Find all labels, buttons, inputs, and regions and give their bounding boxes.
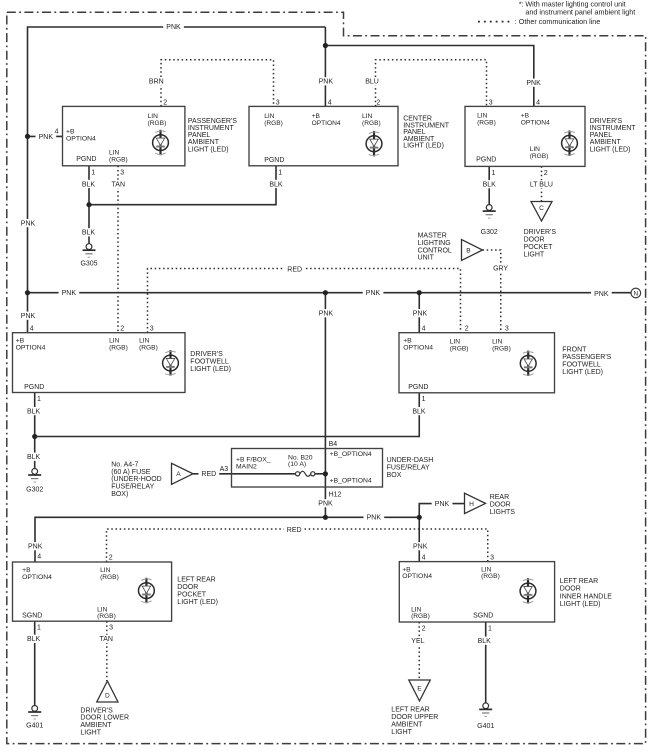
- svg-text:FOOTWELL: FOOTWELL: [562, 362, 601, 369]
- svg-text:A: A: [176, 471, 181, 478]
- LED lamp in U6: [139, 578, 155, 603]
- svg-text:PASSENGER'S: PASSENGER'S: [562, 354, 611, 361]
- svg-text:AMBIENT: AMBIENT: [80, 722, 112, 729]
- wire label BRN: [146, 77, 167, 85]
- U5 terminal label LIN (RGB) pin3: [492, 339, 511, 353]
- svg-text:RED: RED: [287, 527, 302, 534]
- svg-text:DRIVER'S: DRIVER'S: [590, 118, 623, 125]
- svg-text:(10 A): (10 A): [288, 461, 306, 468]
- svg-text:LIGHT (LED): LIGHT (LED): [177, 599, 218, 606]
- junction: lower bus at fuse box drop: [323, 515, 328, 520]
- connector box U2: center instrument panel ambient light (LED): [249, 106, 398, 165]
- pin 2 of U6: [109, 554, 113, 561]
- svg-text:TAN: TAN: [99, 636, 112, 643]
- pin 3 of U4: [150, 326, 154, 333]
- svg-text:1: 1: [422, 396, 426, 403]
- name label U7: left rear door inner handle light: [560, 578, 612, 608]
- svg-text:D: D: [105, 692, 110, 699]
- svg-text:(RGB): (RGB): [109, 156, 128, 163]
- svg-text:(RGB): (RGB): [411, 613, 430, 620]
- svg-text:OPTION4: OPTION4: [402, 573, 432, 580]
- svg-text:OPTION4: OPTION4: [22, 574, 52, 581]
- pin 2 of U7: [422, 625, 426, 632]
- junction: top rail to center light drop: [323, 43, 328, 48]
- svg-text:PNK: PNK: [413, 311, 428, 318]
- svg-text:REAR: REAR: [490, 494, 509, 501]
- name label: driver's door lower ambient light: [80, 707, 129, 736]
- pin 3 of U2: [276, 99, 280, 106]
- svg-text:AMBIENT: AMBIENT: [590, 139, 622, 146]
- svg-text:4: 4: [328, 99, 332, 106]
- svg-text:2: 2: [120, 326, 124, 333]
- legend sample: other communication line (dotted): [478, 17, 600, 26]
- wire PNK: stub to passenger's instrument panel light pin 4: [28, 135, 63, 137]
- connector box U5: front passenger's footwell light (LED): [399, 333, 555, 393]
- svg-text:PNK: PNK: [21, 313, 36, 320]
- dotted wire RED: driver's footwell pin 3 to front passenger's footwell pin 2: [148, 269, 461, 333]
- fuse box terminal label +B F/BOX_MAIN2: [236, 457, 271, 471]
- svg-text:LIGHT (LED): LIGHT (LED): [560, 601, 601, 608]
- ground G302 (footwell): [26, 469, 43, 494]
- svg-text:3: 3: [120, 170, 124, 177]
- dotted wire YEL: inner handle pin 2 to connector E: [418, 622, 420, 680]
- wire label RED (lower dotted): [284, 526, 305, 534]
- svg-text:LIGHT (LED): LIGHT (LED): [190, 366, 231, 373]
- wire PNK: upper rail to driver's instrument panel light pin 4: [325, 46, 533, 107]
- svg-text:FUSE/RELAY: FUSE/RELAY: [111, 484, 154, 491]
- svg-text:PASSENGER'S: PASSENGER'S: [188, 118, 237, 125]
- svg-text:2: 2: [465, 325, 469, 332]
- svg-text:(RGB): (RGB): [530, 153, 549, 160]
- svg-text:PNK: PNK: [62, 290, 77, 297]
- svg-text:3: 3: [109, 625, 113, 632]
- svg-text:LEFT REAR: LEFT REAR: [391, 706, 429, 713]
- svg-text:LEFT REAR: LEFT REAR: [560, 578, 598, 585]
- svg-text:INSTRUMENT: INSTRUMENT: [590, 125, 637, 132]
- U6 terminal label +B OPTION4: [22, 567, 52, 581]
- svg-text:4: 4: [55, 128, 59, 135]
- ground G401 (left): [26, 706, 43, 730]
- svg-text:N: N: [633, 291, 638, 298]
- svg-text:OPTION4: OPTION4: [312, 120, 341, 127]
- svg-text:LIGHT: LIGHT: [391, 729, 412, 736]
- svg-text:BLK: BLK: [412, 408, 426, 415]
- name label: under-dash fuse/relay box: [387, 457, 434, 479]
- pin 4 of U2: [328, 99, 332, 106]
- wire label TAN (pocket pin3): [96, 635, 117, 643]
- wire label BLK (driver footwell pin1): [23, 407, 44, 415]
- pin 2 of U4: [120, 326, 124, 333]
- svg-text:PNK: PNK: [594, 291, 609, 298]
- svg-text:2: 2: [544, 170, 548, 177]
- U1 terminal label +B OPTION4: [66, 129, 96, 143]
- name label: master lighting control unit: [418, 233, 452, 262]
- U7 terminal label +B OPTION4: [402, 566, 432, 580]
- svg-text:(RGB): (RGB): [362, 120, 381, 127]
- wire label PNK (top rail): [163, 23, 184, 31]
- svg-text:C: C: [539, 205, 544, 212]
- svg-text:(RGB): (RGB): [100, 574, 119, 581]
- svg-text:PNK: PNK: [435, 501, 450, 508]
- wire PNK: drop from middle bus to under-dash fuse box pin B4 and on to H12 / lower bus: [324, 293, 326, 518]
- svg-text:(RGB): (RGB): [481, 573, 500, 580]
- U2 terminal label LIN (RGB) pin2: [362, 113, 381, 127]
- U7 terminal label LIN (RGB) pin2: [411, 606, 430, 620]
- svg-text:DRIVER'S: DRIVER'S: [80, 707, 113, 714]
- junction: left vertical to middle PNK bus: [25, 290, 30, 295]
- svg-text:LIGHT (LED): LIGHT (LED): [403, 143, 444, 150]
- svg-text:A3: A3: [220, 466, 229, 473]
- wire BLK: left rear door pocket light pin 1 to ground G401: [34, 621, 36, 705]
- LED lamp in U7: [520, 578, 536, 603]
- name label U6: left rear door pocket light: [177, 576, 218, 606]
- svg-text:PNK: PNK: [413, 544, 428, 551]
- svg-text:BLK: BLK: [82, 181, 96, 188]
- svg-text:(RGB): (RGB): [477, 119, 496, 126]
- wire BLK: left rear door inner handle light pin 1 to ground G401: [485, 622, 487, 703]
- wire PNK: branch to rear door lights connector H and left rear door inner handle light pin 4: [419, 504, 464, 562]
- svg-text:PNK: PNK: [366, 290, 381, 297]
- pin 3 of U1: [120, 170, 124, 177]
- name label: rear door lights: [490, 494, 516, 516]
- svg-text:2: 2: [109, 554, 113, 561]
- svg-text:POCKET: POCKET: [177, 592, 207, 599]
- svg-text:TAN: TAN: [112, 181, 125, 188]
- LED lamp in U5: [520, 351, 536, 376]
- U5 terminal label LIN (RGB) pin2: [450, 339, 469, 353]
- svg-text:PNK: PNK: [21, 220, 36, 227]
- svg-text:BLU: BLU: [365, 78, 379, 85]
- svg-text:1: 1: [278, 170, 282, 177]
- wire label BLK (to G302): [23, 453, 44, 461]
- svg-text:MASTER: MASTER: [418, 233, 447, 240]
- U5 terminal label PGND: [408, 384, 428, 391]
- wire label BLU: [362, 77, 383, 85]
- wire label PNK (left vertical upper): [18, 219, 39, 227]
- under-dash fuse/relay box: [232, 449, 383, 488]
- pin 4 of U7: [422, 554, 426, 561]
- svg-text:MAIN2: MAIN2: [236, 463, 257, 470]
- svg-text:SGND: SGND: [22, 612, 42, 619]
- junction: BLK ground bus: [32, 434, 37, 439]
- svg-text:+B_OPTION4: +B_OPTION4: [330, 478, 372, 485]
- svg-text:(RGB): (RGB): [148, 120, 167, 127]
- wire label PNK (pocket light drop): [25, 542, 46, 550]
- ground G305: [80, 244, 97, 268]
- wire label PNK (footwell drop): [410, 309, 431, 317]
- svg-text:BLK: BLK: [27, 408, 41, 415]
- wire label BLK (front passenger footwell pin1): [409, 407, 430, 415]
- svg-text:G401: G401: [477, 723, 494, 730]
- pin 2 of U1: [163, 99, 167, 106]
- fuse box terminal label +B_OPTION4 (H12): [330, 478, 372, 485]
- svg-text:RED: RED: [201, 471, 216, 478]
- pin 1 of U6: [37, 625, 41, 632]
- pin B4 of fuse box: [329, 441, 338, 448]
- wire RED: fuse A4-7 feed into under-dash fuse box fuse B20: [193, 473, 296, 475]
- wire PNK: drop from middle bus to front passenger's footwell light pin 4: [418, 293, 420, 333]
- svg-text:(RGB): (RGB): [97, 613, 116, 620]
- name label U4: driver's footwell light: [190, 351, 231, 373]
- pin 1 of U7: [488, 625, 492, 632]
- pin 1 of U1: [91, 170, 95, 177]
- connector box U7: left rear door inner handle light (LED): [399, 562, 554, 622]
- svg-text:BOX: BOX: [387, 472, 402, 479]
- svg-text:1: 1: [91, 170, 95, 177]
- svg-text:(RGB): (RGB): [492, 345, 511, 352]
- wire BLK: driver's footwell light pin 1 to ground G302: [34, 393, 36, 469]
- pin 1 of U5: [422, 396, 426, 403]
- svg-text:SGND: SGND: [473, 613, 493, 620]
- LED lamp in U1: [153, 130, 169, 155]
- svg-text:DRIVER'S: DRIVER'S: [524, 229, 557, 236]
- U7 terminal label SGND: [473, 613, 493, 620]
- dotted wire TAN: passenger's pin 3 down to driver's footwell pin 2: [117, 166, 119, 333]
- name label U1: passenger's instrument panel ambient light: [188, 118, 237, 154]
- svg-text:(RGB): (RGB): [109, 344, 128, 351]
- svg-text:PGND: PGND: [24, 384, 44, 391]
- U5 terminal label +B OPTION4: [403, 338, 433, 352]
- svg-text:G302: G302: [481, 229, 498, 236]
- svg-text:PGND: PGND: [408, 384, 428, 391]
- pin H12 of fuse box: [329, 491, 342, 498]
- dotted wire GRY: master lighting control unit B to front passenger's footwell pin 3: [483, 250, 501, 333]
- svg-text:RED: RED: [287, 267, 302, 274]
- name label: driver's door pocket light: [524, 229, 557, 259]
- svg-text:3: 3: [490, 554, 494, 561]
- svg-text:PNK: PNK: [526, 80, 541, 87]
- connector A: to fuse A4-7: [172, 463, 194, 484]
- svg-text:PNK: PNK: [319, 79, 334, 86]
- svg-text:OPTION4: OPTION4: [66, 135, 96, 142]
- name label U3: driver's instrument panel ambient light: [590, 118, 637, 154]
- svg-text:UNDER-DASH: UNDER-DASH: [387, 457, 434, 464]
- wire label PNK (left vertical lower): [18, 312, 39, 320]
- wire label PNK (passenger stub): [36, 133, 57, 141]
- U2 terminal label +B OPTION4: [312, 113, 341, 127]
- svg-text:OPTION4: OPTION4: [16, 344, 46, 351]
- svg-text:PGND: PGND: [76, 156, 96, 163]
- svg-text:OPTION4: OPTION4: [403, 344, 433, 351]
- svg-text:DOOR: DOOR: [560, 586, 581, 593]
- svg-text:FRONT: FRONT: [562, 347, 587, 354]
- pin A3 of fuse box: [220, 466, 229, 473]
- svg-text:4: 4: [37, 554, 41, 561]
- U3 terminal label +B OPTION4: [521, 113, 550, 127]
- svg-text:(60 A) FUSE: (60 A) FUSE: [111, 469, 151, 476]
- junction: middle bus to front passenger footwell drop: [417, 290, 422, 295]
- svg-text:BOX): BOX): [111, 491, 128, 498]
- svg-text:3: 3: [150, 326, 154, 333]
- pin 1 of U2: [278, 170, 282, 177]
- svg-text:3: 3: [489, 99, 493, 106]
- svg-text:PNK: PNK: [318, 501, 333, 508]
- svg-text:BLK: BLK: [269, 181, 283, 188]
- fuse No. B20 (10 A) element: [296, 471, 315, 476]
- U6 terminal label SGND: [22, 612, 42, 619]
- U1 terminal label PGND: [76, 156, 96, 163]
- U4 terminal label +B OPTION4: [16, 338, 46, 352]
- svg-text:G305: G305: [80, 261, 97, 268]
- U6 terminal label LIN (RGB) pin2: [100, 567, 119, 581]
- svg-text:BLK: BLK: [478, 638, 492, 645]
- svg-text:3: 3: [505, 325, 509, 332]
- U1 terminal label LIN (RGB) pin2: [148, 113, 167, 127]
- svg-text:CONTROL: CONTROL: [418, 247, 452, 254]
- wire label PNK (rear door branch): [432, 500, 453, 508]
- svg-text:(RGB): (RGB): [264, 120, 283, 127]
- wire label BLK (above G305): [78, 228, 99, 236]
- svg-text:BLK: BLK: [27, 636, 41, 643]
- legend note: with master lighting control unit: [525, 0, 635, 16]
- connector B: master lighting control unit: [462, 240, 483, 261]
- svg-text:LIGHT: LIGHT: [80, 729, 101, 736]
- pin 1 of U4: [37, 396, 41, 403]
- svg-text:H: H: [469, 501, 474, 508]
- pin 4 of U5: [422, 326, 426, 333]
- wire label YEL (inner handle pin2): [408, 637, 429, 645]
- wire: fuse B20 output to +B_OPTION4 node: [315, 473, 326, 475]
- svg-text:4: 4: [422, 554, 426, 561]
- LED lamp in U2: [366, 131, 382, 156]
- svg-text:DOOR: DOOR: [177, 584, 198, 591]
- svg-text:LEFT REAR: LEFT REAR: [177, 576, 215, 583]
- svg-text:PNK: PNK: [367, 514, 382, 521]
- wire PNK: lower bus to left rear door pocket light pin 4: [35, 517, 419, 562]
- ground G401 (right): [477, 703, 494, 730]
- svg-text:UNIT: UNIT: [418, 255, 435, 262]
- svg-text:4: 4: [422, 326, 426, 333]
- svg-text:INNER HANDLE: INNER HANDLE: [560, 593, 612, 600]
- U4 terminal label LIN (RGB) pin3: [139, 338, 158, 352]
- name label: left rear door upper ambient light: [391, 706, 438, 736]
- svg-text:LIGHT (LED): LIGHT (LED): [562, 369, 603, 376]
- U2 terminal label LIN (RGB): [264, 113, 283, 127]
- svg-text:G401: G401: [26, 722, 43, 729]
- pin 3 of U5: [505, 325, 509, 332]
- ground G302 (instrument): [481, 205, 498, 236]
- svg-text:PANEL: PANEL: [590, 132, 613, 139]
- svg-text:*:: *:: [519, 0, 524, 9]
- svg-text:DOOR: DOOR: [524, 237, 545, 244]
- dotted wire RED: lower link left rear pocket pin 2 to inner handle pin 3: [107, 529, 488, 562]
- svg-text:1: 1: [37, 396, 41, 403]
- svg-text:AMBIENT: AMBIENT: [391, 721, 423, 728]
- svg-text:+B_OPTION4: +B_OPTION4: [330, 451, 372, 458]
- wire label PNK (H12 drop): [315, 499, 336, 507]
- wire label PNK (lower bus): [364, 513, 385, 521]
- name label U2: center instrument panel ambient light: [403, 116, 450, 150]
- name label U5: front passenger's footwell light: [562, 347, 611, 377]
- svg-text:FOOTWELL: FOOTWELL: [190, 359, 229, 366]
- svg-text:PGND: PGND: [476, 157, 496, 164]
- node N: circled network reference: [631, 288, 641, 298]
- svg-text:PGND: PGND: [264, 157, 284, 164]
- svg-text:LIGHTING: LIGHTING: [418, 240, 451, 247]
- svg-text:1: 1: [492, 170, 496, 177]
- wire label BLK (inner handle pin1): [474, 637, 495, 645]
- wire label LT BLU (driver pin2): [525, 180, 557, 188]
- wire label BLK (pocket pin1): [23, 635, 44, 643]
- pin 1 of U3: [492, 170, 496, 177]
- svg-text:BLK: BLK: [27, 454, 41, 461]
- U6 terminal label LIN (RGB) pin3: [97, 606, 116, 620]
- connector D: driver's door lower ambient light: [97, 681, 118, 702]
- wire label BLK (center pin1): [266, 180, 287, 188]
- svg-text:POCKET: POCKET: [524, 244, 554, 251]
- svg-text:H12: H12: [329, 491, 342, 498]
- svg-text:B4: B4: [329, 441, 338, 448]
- svg-text:1: 1: [37, 625, 41, 632]
- svg-text:LIGHTS: LIGHTS: [490, 509, 516, 516]
- svg-text:2: 2: [422, 625, 426, 632]
- dotted wire TAN: left rear pocket pin 3 to connector D: [106, 621, 108, 681]
- U4 terminal label LIN (RGB) pin2: [109, 338, 128, 352]
- svg-text:4: 4: [536, 99, 540, 106]
- U1 terminal label LIN (RGB) pin3: [109, 150, 128, 164]
- U3 terminal label PGND: [476, 157, 496, 164]
- svg-text:LT BLU: LT BLU: [530, 182, 553, 189]
- wire label PNK (inner handle drop): [410, 542, 431, 550]
- wire BLK: center instrument light pin 1 joining ground G305 net: [89, 166, 276, 205]
- connector H: rear door lights: [465, 493, 486, 513]
- connector C: driver's door pocket light: [531, 202, 552, 222]
- svg-text:LIGHT (LED): LIGHT (LED): [590, 146, 631, 153]
- pin 2 of U2: [376, 99, 380, 106]
- dotted wire BLU: LIN(RGB) link center pin 2 to driver's pin 3: [376, 60, 487, 107]
- wire label BLK (passenger pin1): [78, 180, 99, 188]
- connector box U1: passenger's instrument panel ambient light (LED): [63, 106, 185, 165]
- svg-text:4: 4: [30, 326, 34, 333]
- svg-text:1: 1: [488, 625, 492, 632]
- wire BLK: ground bus from footwell lights: [35, 393, 420, 437]
- U2 terminal label PGND: [264, 157, 284, 164]
- svg-text:B: B: [466, 247, 471, 254]
- svg-text:YEL: YEL: [411, 638, 424, 645]
- svg-text:AMBIENT: AMBIENT: [188, 139, 220, 146]
- connector E: left rear door upper ambient light: [409, 680, 430, 701]
- junction: lower bus at rear-door branch: [417, 515, 422, 520]
- wire label RED (upper dotted): [284, 265, 305, 273]
- svg-text:LIGHT (LED): LIGHT (LED): [188, 146, 229, 153]
- svg-text:GRY: GRY: [493, 266, 508, 273]
- U7 terminal label LIN (RGB) pin3: [481, 566, 500, 580]
- fuse box terminal label +B_OPTION4 (B4): [330, 451, 372, 458]
- svg-text:BRN: BRN: [149, 78, 164, 85]
- junction: middle bus to fuse box drop: [323, 290, 328, 295]
- dotted wire LT BLU: driver's instrument pin 2 to connector C: [541, 166, 543, 201]
- pin 3 of U7: [490, 554, 494, 561]
- LED lamp in U3: [562, 131, 578, 156]
- U4 terminal label PGND: [24, 384, 44, 391]
- pin 4 of U3: [536, 99, 540, 106]
- svg-text:INSTRUMENT: INSTRUMENT: [188, 125, 235, 132]
- svg-text:DOOR UPPER: DOOR UPPER: [391, 714, 438, 721]
- wire PNK: main middle bus: [28, 292, 632, 294]
- pin 4 of U1: [55, 128, 59, 135]
- junction: left vertical to passenger light stub: [25, 134, 30, 139]
- svg-text:and instrument panel ambient l: and instrument panel ambient light: [525, 8, 635, 17]
- wire label PNK (middle bus left): [59, 289, 80, 297]
- value label: No. A4-7 (60 A) fuse (under-hood fuse/relay box): [111, 462, 162, 498]
- svg-text:PNK: PNK: [39, 134, 54, 141]
- svg-text:PNK: PNK: [319, 311, 334, 318]
- svg-text:(RGB): (RGB): [139, 344, 158, 351]
- svg-text:(RGB): (RGB): [450, 345, 469, 352]
- svg-text:PNK: PNK: [28, 544, 43, 551]
- svg-text:G302: G302: [26, 486, 43, 493]
- fuse value label No. B20 (10 A): [288, 454, 313, 468]
